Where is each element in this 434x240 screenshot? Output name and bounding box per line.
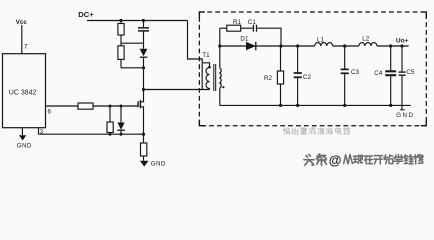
wire main output line xyxy=(220,45,315,47)
svg-text:GND: GND xyxy=(396,112,414,119)
ground GND sense arrow xyxy=(140,161,149,167)
wire clamp upper join xyxy=(121,42,144,44)
node junction C2 bottom xyxy=(296,104,299,107)
wire C1 to corner xyxy=(257,28,281,46)
wire C5 to ground stub xyxy=(401,76,403,110)
wire pin 3 lead xyxy=(38,128,40,135)
capacitor C3 xyxy=(344,46,346,69)
diagram dashed box output filter xyxy=(199,12,426,126)
node junction drain xyxy=(142,88,145,91)
wire secondary top to snubber node xyxy=(219,28,221,68)
caption output filter chinese xyxy=(283,127,350,134)
capacitor clamp xyxy=(143,21,145,28)
node junction rail-R xyxy=(119,19,122,22)
watermark toutiao text xyxy=(304,152,423,167)
node junction C4 top xyxy=(389,44,392,47)
wire clamp to drain xyxy=(143,68,145,90)
wire clamp left mid xyxy=(120,35,122,46)
node junction R1C1-R2 xyxy=(279,44,282,47)
diode clamp xyxy=(140,49,148,57)
node junction R2 bottom xyxy=(279,104,282,107)
transformer T1 primary winding xyxy=(206,68,209,90)
transformer T1 secondary winding xyxy=(220,68,221,88)
node junction rail-C xyxy=(142,19,145,22)
node junction source sense xyxy=(142,133,145,136)
wire Vcc to pin 7 xyxy=(21,25,23,54)
node junction C3 top xyxy=(343,44,346,47)
svg-text:@: @ xyxy=(329,152,342,167)
svg-text:C1: C1 xyxy=(248,19,257,26)
resistor gate-source xyxy=(109,106,111,122)
wire primary left rail xyxy=(201,63,203,90)
resistor R2 xyxy=(280,46,282,71)
svg-text:C5: C5 xyxy=(406,69,415,76)
svg-text:UC 3842: UC 3842 xyxy=(9,90,37,97)
node junction primary top xyxy=(208,66,211,69)
diode D1 xyxy=(246,42,256,51)
wire secondary bottom to output return xyxy=(219,88,221,105)
wire DC+ rail xyxy=(87,20,188,22)
transistor Q1 MOSFET xyxy=(138,90,143,135)
wire DC+ down to primary xyxy=(188,21,203,63)
svg-text:C2: C2 xyxy=(303,74,312,81)
wire drain to transformer primary xyxy=(144,89,210,91)
diode zener gate protection xyxy=(120,106,122,123)
wire pin 3 to source node xyxy=(39,133,144,135)
resistor current sense xyxy=(143,134,145,143)
ground GND left arrow xyxy=(19,135,26,140)
wire faint scan artifact line xyxy=(0,140,434,142)
node junction gate line R xyxy=(109,105,112,108)
node junction gate line D xyxy=(120,105,123,108)
wire primary top stub xyxy=(202,63,209,68)
wire gate resistor to Q1 gate xyxy=(93,105,138,107)
resistor gate drive xyxy=(78,103,93,109)
node polarity dot secondary xyxy=(222,86,224,88)
wire U1 GND lead xyxy=(21,128,23,136)
svg-text:R2: R2 xyxy=(264,75,273,82)
node junction C2 top xyxy=(296,44,299,47)
resistor clamp lower xyxy=(118,46,124,60)
node junction C3 bottom xyxy=(343,104,346,107)
node junction source line D xyxy=(120,133,123,136)
svg-text:D1: D1 xyxy=(240,36,249,43)
svg-text:Vcc: Vcc xyxy=(16,19,28,26)
svg-text:GND: GND xyxy=(151,161,166,168)
svg-text:L2: L2 xyxy=(362,35,370,42)
ground GND output tick xyxy=(400,109,405,111)
svg-text:7: 7 xyxy=(24,43,28,50)
svg-text:GND: GND xyxy=(17,142,32,149)
inductor L2 xyxy=(359,43,377,46)
wire output return rail xyxy=(220,104,411,106)
inductor L1 xyxy=(315,43,333,46)
resistor R1 xyxy=(227,25,241,31)
capacitor C2 xyxy=(297,46,299,72)
wire clamp left bottom xyxy=(120,59,122,67)
capacitor C5 xyxy=(401,46,403,71)
svg-text:T1: T1 xyxy=(202,52,210,59)
capacitor C1 xyxy=(252,25,254,32)
resistor clamp upper xyxy=(120,21,122,24)
capacitor C4 electrolytic xyxy=(390,46,392,70)
svg-text:DC+: DC+ xyxy=(78,10,94,19)
node junction secondary top D1 xyxy=(218,44,221,47)
svg-text:C4: C4 xyxy=(374,70,383,77)
wire snubber top left xyxy=(220,27,227,29)
node junction C4 bottom xyxy=(389,104,392,107)
svg-text:C3: C3 xyxy=(351,69,360,76)
svg-text:Uo+: Uo+ xyxy=(396,38,409,45)
wire pin 6 to gate resistor xyxy=(46,105,79,107)
svg-text:6: 6 xyxy=(48,108,52,115)
wire clamp lower join xyxy=(121,67,144,69)
node junction clamp bottom xyxy=(142,66,145,69)
wire R1 to C1 xyxy=(241,27,253,29)
transformer T1 core xyxy=(213,64,215,91)
op-amp U1 UC3842 box xyxy=(3,54,46,128)
node junction C5 top xyxy=(400,44,403,47)
wire L1 to L2 xyxy=(333,45,359,47)
wire L2 to output xyxy=(377,45,409,47)
node junction source line R xyxy=(109,133,112,136)
